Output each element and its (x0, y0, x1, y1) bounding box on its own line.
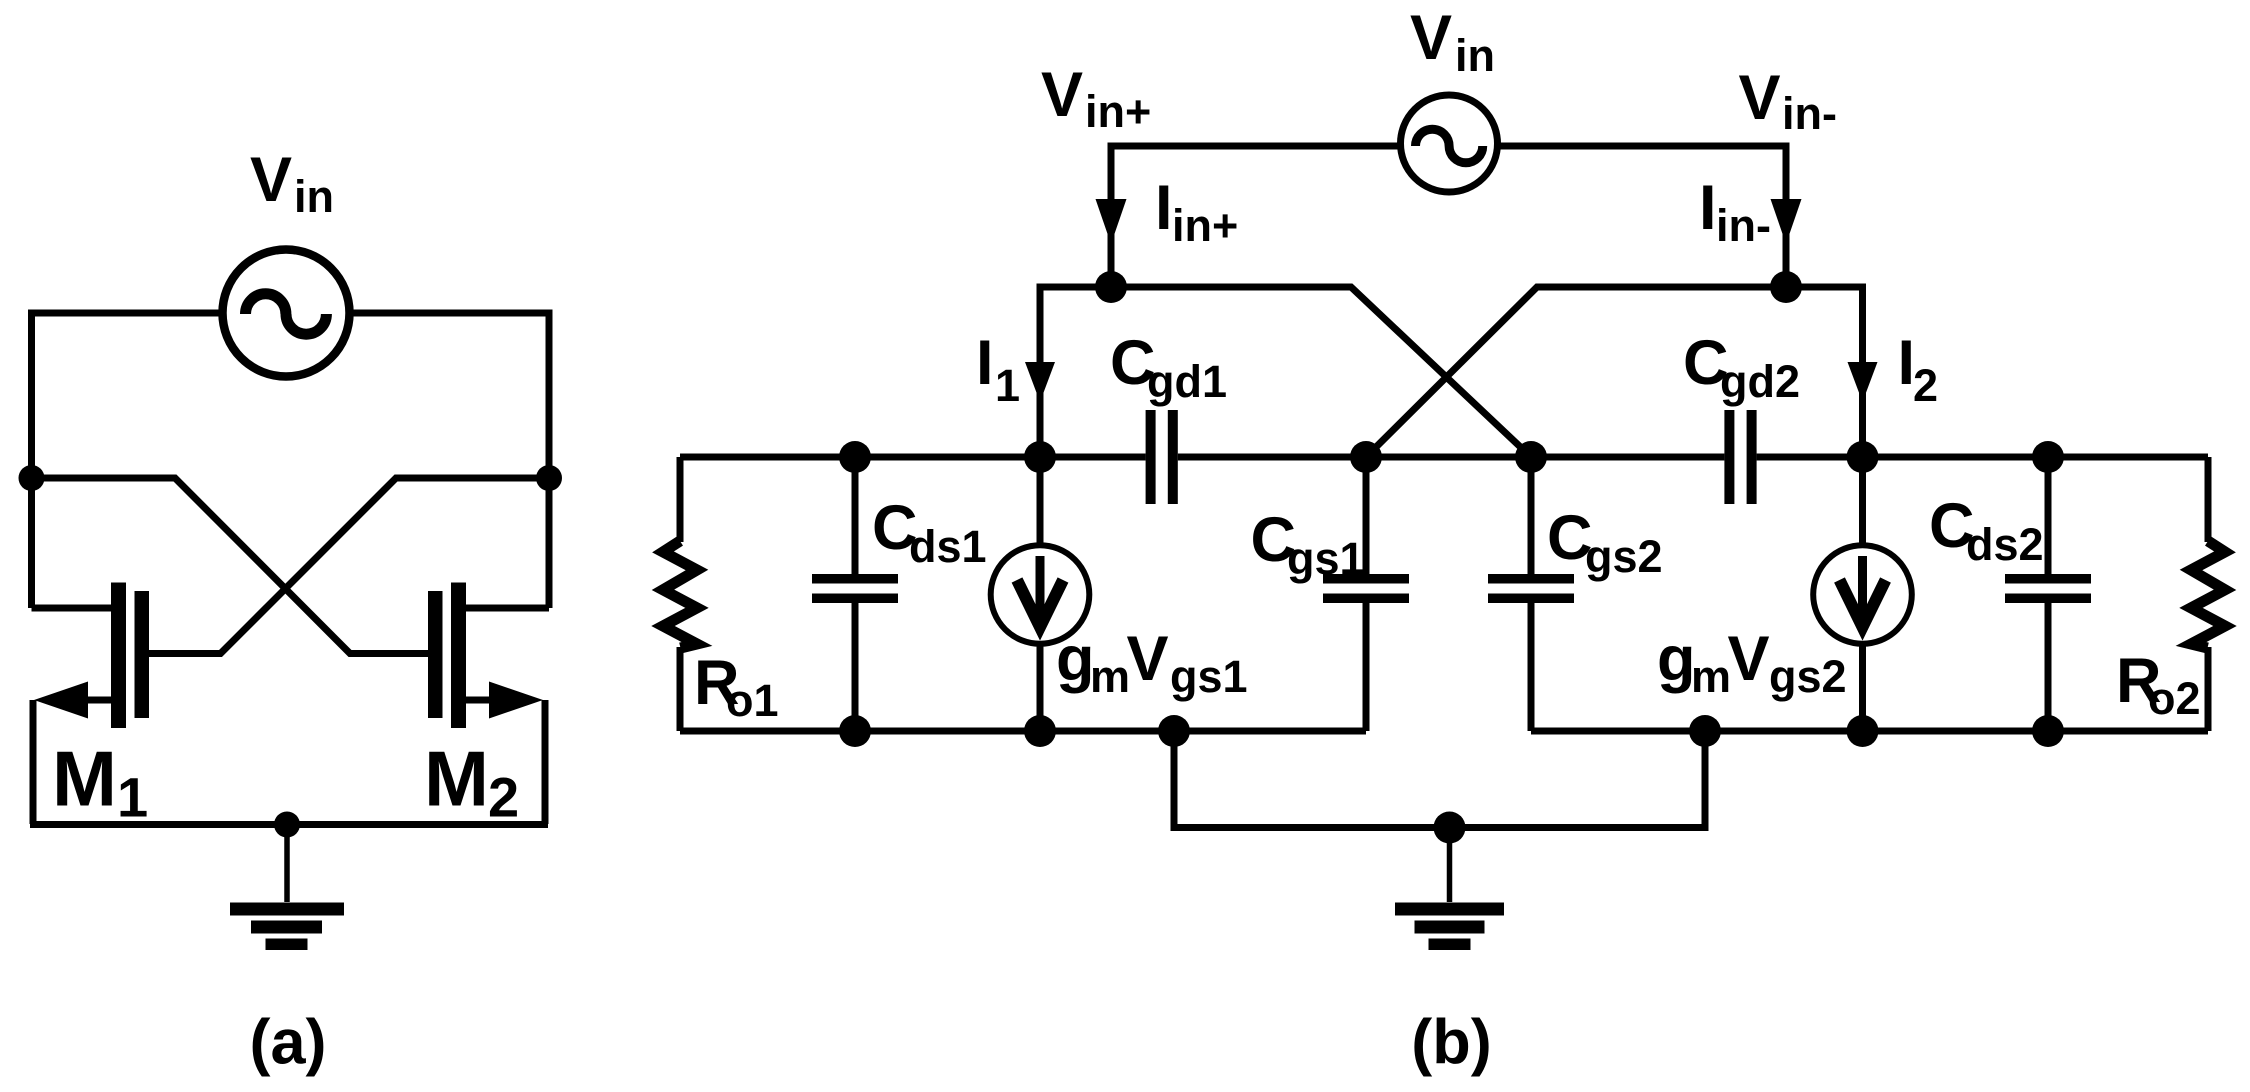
svg-text:V: V (1410, 3, 1452, 73)
svg-text:V: V (1127, 624, 1169, 694)
svg-text:g: g (1056, 624, 1094, 694)
svg-text:gd1: gd1 (1147, 356, 1227, 407)
svg-text:V: V (1728, 624, 1770, 694)
svg-text:2: 2 (488, 766, 519, 829)
svg-text:in: in (294, 171, 334, 222)
svg-text:gs2: gs2 (1769, 651, 1847, 702)
svg-text:gs1: gs1 (1170, 651, 1248, 702)
svg-text:2: 2 (1913, 360, 1938, 411)
svg-text:gs1: gs1 (1287, 533, 1365, 584)
svg-text:in+: in+ (1085, 86, 1151, 137)
svg-text:1: 1 (995, 360, 1020, 411)
svg-text:in-: in- (1716, 200, 1771, 251)
svg-text:m: m (1090, 651, 1130, 702)
svg-text:ds2: ds2 (1966, 519, 2044, 570)
svg-text:in: in (1455, 30, 1495, 81)
svg-text:I: I (976, 328, 994, 398)
svg-text:(a): (a) (250, 1008, 327, 1078)
svg-text:o2: o2 (2148, 673, 2201, 724)
svg-text:V: V (1739, 63, 1781, 133)
svg-text:1: 1 (117, 766, 148, 829)
svg-text:g: g (1657, 624, 1695, 694)
svg-text:I: I (1155, 173, 1173, 243)
svg-text:gs2: gs2 (1585, 531, 1663, 582)
svg-text:V: V (1041, 60, 1083, 130)
svg-text:M: M (424, 735, 489, 823)
svg-text:(b): (b) (1411, 1008, 1491, 1078)
svg-text:ds1: ds1 (909, 521, 987, 572)
svg-text:M: M (52, 735, 117, 823)
svg-text:I: I (1699, 173, 1717, 243)
svg-text:in-: in- (1782, 88, 1837, 139)
svg-text:gd2: gd2 (1720, 356, 1800, 407)
svg-text:in+: in+ (1172, 200, 1238, 251)
svg-text:V: V (250, 145, 292, 215)
svg-text:m: m (1691, 651, 1731, 702)
svg-text:o1: o1 (726, 675, 779, 726)
